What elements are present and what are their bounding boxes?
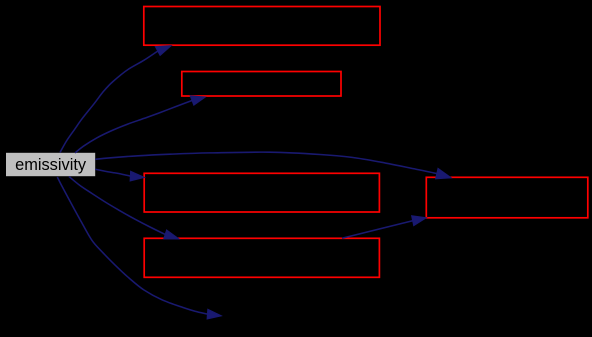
wire edge F: emissivity to bottom node xyxy=(57,177,207,314)
wire edge G: lower box to right box xyxy=(342,221,413,239)
node box2 xyxy=(182,72,341,97)
wire edge G arrowhead xyxy=(412,216,427,226)
node box1 top xyxy=(144,7,380,46)
node box3 middle xyxy=(144,173,379,212)
wire edge E: emissivity to lower box xyxy=(69,177,165,235)
node box5 right xyxy=(426,177,588,218)
node emissivity xyxy=(6,153,95,176)
wire edge B: emissivity to second box xyxy=(75,101,192,153)
wire edge A arrowhead xyxy=(155,46,171,56)
wire edge B arrowhead xyxy=(190,96,205,105)
wire edge F arrowhead xyxy=(207,309,221,319)
wire edge C: emissivity to right box xyxy=(95,152,437,173)
wire edge E arrowhead xyxy=(164,230,179,239)
wire edge A: emissivity to top box xyxy=(60,51,158,152)
wire edge D arrowhead xyxy=(130,171,145,181)
node box4 lower xyxy=(144,238,379,277)
svg-text:emissivity: emissivity xyxy=(15,156,87,174)
wire edge C arrowhead xyxy=(436,168,452,178)
wire edge D: emissivity to middle box xyxy=(95,169,130,176)
